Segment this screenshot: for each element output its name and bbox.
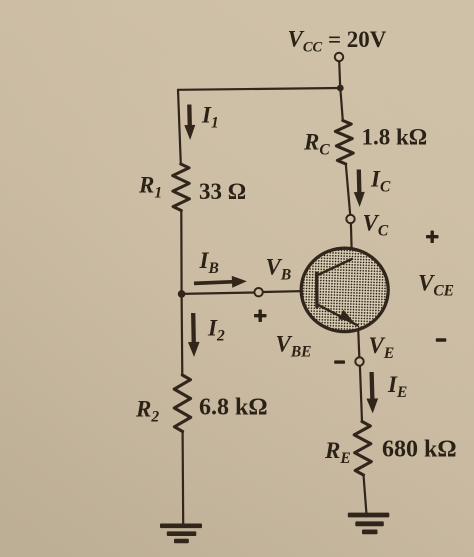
svg-text:6.8 kΩ: 6.8 kΩ [199,395,268,421]
svg-text:VCC = 20V: VCC = 20V [288,27,387,56]
svg-text:1.8 kΩ: 1.8 kΩ [362,125,428,150]
svg-text:680 kΩ: 680 kΩ [382,437,457,463]
svg-text:33 Ω: 33 Ω [199,179,246,204]
